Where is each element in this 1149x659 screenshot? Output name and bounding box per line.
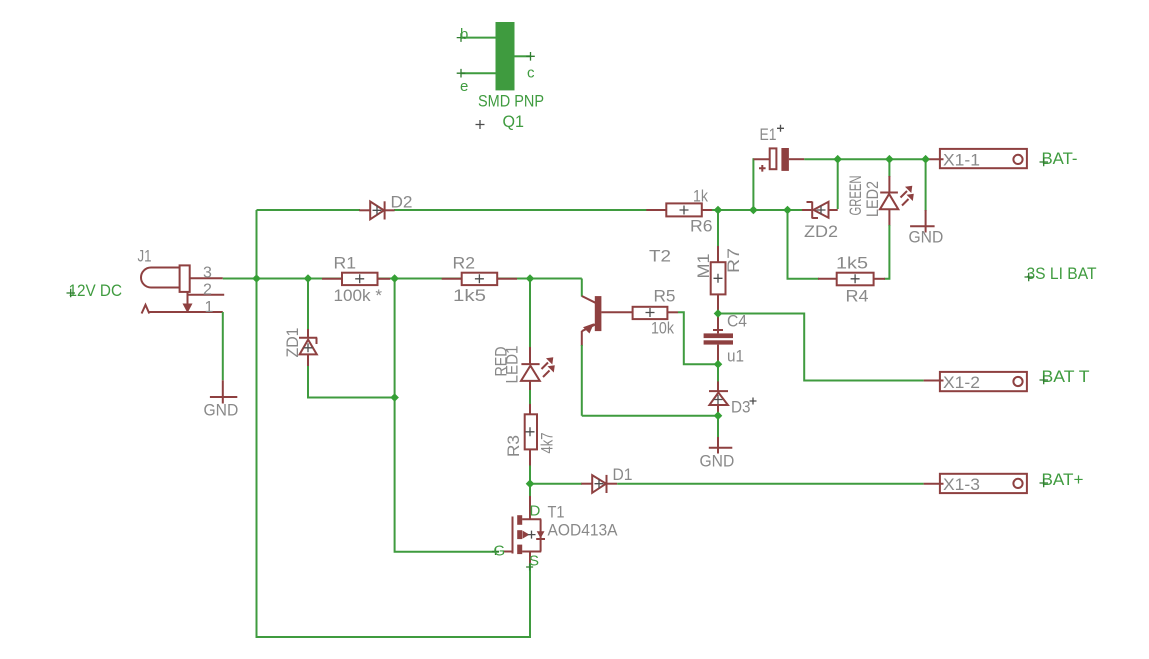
junction node on 12V rail at gate column [390,274,399,283]
svg-text:D2: D2 [391,193,413,212]
svg-text:ZD2: ZD2 [804,222,838,241]
svg-text:D3: D3 [731,398,751,417]
wire left vertical x256 from D2 line to bottom [257,210,531,637]
resistor R3 vertical [525,404,537,466]
svg-text:12V DC: 12V DC [69,281,123,300]
svg-text:X1-3: X1-3 [943,475,980,494]
wire gate column vertical [395,279,499,552]
wire LED1 to R3 [529,390,531,405]
svg-text:ZD1: ZD1 [283,328,302,358]
transistor T2 (PNP) [582,296,633,346]
junction node LED2 top on BAT- rail [885,155,894,164]
svg-text:Q1: Q1 [503,112,525,131]
svg-text:BAT T: BAT T [1042,367,1090,386]
svg-text:100k *: 100k * [334,286,383,305]
svg-text:X1-2: X1-2 [943,373,980,392]
wire ZD2 anode up to BAT- rail [837,159,839,209]
svg-text:T1: T1 [548,503,565,522]
LED LED1 (RED) [521,347,555,391]
svg-text:SMD PNP: SMD PNP [478,92,544,111]
transistor T1 (AOD413A P-MOSFET) [504,496,545,564]
svg-text:GND: GND [204,401,239,420]
wire BAT+ net from D1 to X1-3 [617,483,923,485]
label origin cross of BAT+ [1040,479,1049,488]
wire R7 top feed [717,210,719,247]
wire emitter row to D3 anode [582,415,718,417]
wire LED1 top feed [529,279,531,349]
diode D1 [581,475,617,493]
connector X1-2 [924,372,1027,391]
wire BAT- rail from E1 to X1-1 [804,158,925,160]
svg-text:3: 3 [203,265,212,282]
junction node R3 bottom / D1 / T1 drain [526,479,535,488]
svg-text:10k: 10k [651,319,674,338]
svg-text:AOD413A: AOD413A [548,521,619,540]
resistor R1 [322,273,390,285]
zener diode ZD2 [802,202,838,219]
origin cross of Q1 [476,120,485,129]
ground GND under D3 [709,437,733,454]
ground GND right [910,210,935,233]
wire R3 bottom to D1 node [529,466,531,484]
wire node down to T1 drain [529,484,531,497]
wire R4 left vertical [788,210,820,279]
svg-text:T2: T2 [649,247,671,266]
resistor R4 [818,273,885,286]
pin origin cross Q1 pin c [526,52,535,61]
svg-text:C4: C4 [727,312,747,331]
origin cross of D3 [750,398,757,405]
wire ZD1 top stub [307,279,309,330]
origin cross of E1 [777,125,784,132]
wire 12V rail from J1 to T2 [223,278,582,280]
diode D2 [359,201,394,219]
wire LED2 bottom to R4 right [884,225,889,279]
ground GND under J1 [210,380,237,403]
wire E1 left feed [752,159,755,210]
junction node on 12V rail at x256 [252,274,261,283]
junction node D3 anode [714,411,723,420]
svg-text:1k: 1k [693,187,708,206]
wire C4 bottom to D3 [717,361,719,382]
wire right GND drop [925,159,927,211]
svg-text:2: 2 [203,282,212,299]
wire R6 to ZD2 row [712,209,802,211]
svg-text:LED2: LED2 [863,181,882,217]
svg-text:D1: D1 [613,465,633,484]
junction node GND drop on BAT- rail [921,155,930,164]
capacitor C4 (polarized) [704,314,733,362]
label origin cross of BAT T [1040,376,1049,385]
svg-text:S: S [529,553,539,570]
svg-text:c: c [527,65,535,82]
pin origin cross Q1 pin e [457,69,466,78]
svg-text:1: 1 [205,299,214,316]
connector X1-1 [926,149,1027,168]
svg-text:E1: E1 [760,125,777,144]
svg-text:LED1: LED1 [503,346,522,384]
svg-text:4k7: 4k7 [538,433,557,454]
svg-text:J1: J1 [138,247,152,266]
LED LED2 (GREEN) [880,176,914,226]
wire J1 pin1 to ground [222,312,224,380]
svg-text:R4: R4 [846,287,869,306]
wire D2 cathode to R6 [394,209,647,211]
svg-text:BAT+: BAT+ [1042,470,1084,489]
junction node R7 bottom [714,309,723,318]
svg-text:R3: R3 [504,435,523,457]
junction node C4 bottom [714,360,723,369]
svg-text:1k5: 1k5 [836,254,868,273]
svg-text:R6: R6 [690,217,713,236]
svg-text:R7: R7 [724,248,743,273]
junction node on 12V rail at LED1 [526,274,535,283]
svg-text:R1: R1 [334,254,357,273]
svg-text:GND: GND [909,228,944,247]
wire R5 to C4 bottom [678,312,718,364]
resistor R7 (M1) vertical [711,246,726,314]
resistor R2 [442,273,517,285]
svg-text:R5: R5 [654,287,676,306]
junction node ZD2 anode on BAT- rail [833,155,842,164]
svg-text:u1: u1 [727,347,744,366]
svg-text:e: e [460,78,468,95]
label origin cross of BAT- [1040,158,1049,167]
pin origin cross at T1 gate [492,548,499,555]
wire BAT T net from R7 bottom to X1-2 [718,314,924,381]
label origin cross of 12V DC [67,289,76,298]
pin origin cross at T1 source [526,564,533,571]
wire ZD1 bottom to gate column [308,366,395,398]
wire T2 emitter down [581,345,583,416]
svg-text:M1: M1 [694,254,713,279]
svg-text:R2: R2 [453,254,476,273]
resistor R5 [633,307,678,319]
svg-text:b: b [460,26,468,43]
svg-text:D: D [530,503,541,520]
wire node to D1 anode [530,483,582,485]
wire LED2 top feed [888,159,890,177]
junction node R6 right [714,206,723,215]
svg-text:GND: GND [700,452,735,471]
wire D3 to ground [717,416,719,438]
svg-text:G: G [494,543,506,560]
junction node ZD1 bottom on gate column [390,393,399,402]
svg-text:1k5: 1k5 [453,286,486,305]
svg-text:BAT-: BAT- [1042,149,1078,168]
junction node on 12V rail at ZD1 [304,274,313,283]
wire D2 anode feed [257,209,361,211]
pin origin cross Q1 pin b [457,33,466,42]
connector J1 (DC barrel jack) [141,265,224,313]
wire drop to T2 collector [581,279,583,297]
svg-text:3S LI BAT: 3S LI BAT [1027,264,1097,283]
connector X1-3 [924,474,1027,493]
svg-text:X1-1: X1-1 [943,151,980,170]
junction node E1 left drop [749,206,758,215]
label origin cross of 3S LI BAT [1025,273,1034,282]
junction node R4 drop [783,206,792,215]
transistor Q1 (SMD PNP package, drawn green) [461,22,531,90]
diode D3 [709,381,728,415]
resistor R6 [646,203,712,216]
electrolytic capacitor E1 [753,148,804,172]
zener diode ZD1 [299,329,317,366]
